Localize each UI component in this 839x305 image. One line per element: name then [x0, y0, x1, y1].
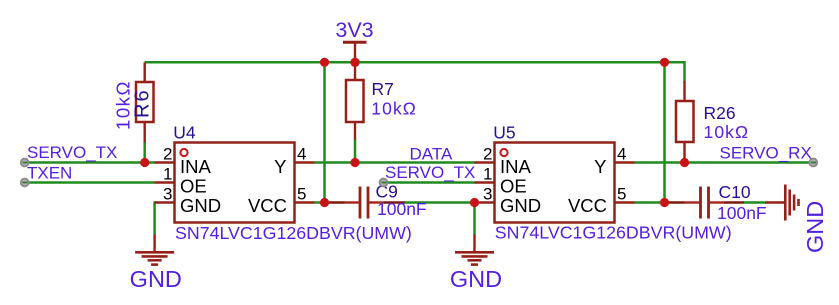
ground GND under U5	[450, 235, 502, 293]
wire SERVO_TX port to U5 pin1	[386, 181, 475, 184]
svg-text:10kΩ: 10kΩ	[113, 80, 134, 130]
pin 4 Y of U4	[295, 161, 315, 163]
svg-text:2: 2	[163, 145, 172, 164]
pin 2 of C9	[369, 201, 385, 203]
resistor R7	[346, 62, 417, 139]
pin 3 GND of U5	[475, 201, 495, 203]
port SERVO_RX	[809, 159, 817, 167]
svg-text:OE: OE	[500, 176, 527, 197]
wire U5.Y to SERVO_RX	[635, 161, 811, 164]
wire C9 right pin to GND net	[384, 201, 405, 203]
pin 1 of C10	[684, 201, 700, 203]
node junction riser U5 top	[660, 58, 669, 67]
node junction U4 VCC	[320, 198, 329, 207]
C10 right plate	[707, 187, 710, 219]
wire U4 pin5 to riser	[315, 201, 326, 204]
wire C9 right to U5 pin3	[404, 201, 475, 204]
ground GND under U4	[130, 235, 182, 293]
svg-text:GND: GND	[130, 266, 182, 292]
svg-text:SERVO_TX: SERVO_TX	[27, 143, 117, 162]
svg-text:10kΩ: 10kΩ	[371, 99, 417, 119]
op-amp U4 (buffer SN74LVC1G126)	[155, 123, 412, 244]
pin-1 indicator circle U4	[180, 149, 187, 156]
port SERVO_TX middle	[380, 179, 388, 187]
C10 left plate	[699, 187, 702, 219]
pin 2 INA of U4	[155, 161, 175, 163]
op-amp U5 (buffer SN74LVC1G126)	[475, 123, 732, 243]
svg-text:C10: C10	[719, 182, 751, 202]
resistor R6	[113, 62, 154, 142]
svg-text:SERVO_RX: SERVO_RX	[720, 144, 812, 163]
wire R26 top segment	[683, 61, 686, 82]
svg-text:3: 3	[483, 185, 492, 204]
wire top 3V3 rail	[145, 61, 685, 64]
wire DATA U4.Y to U5.INA	[315, 161, 475, 164]
svg-text:U4: U4	[173, 123, 196, 143]
svg-text:INA: INA	[500, 156, 532, 177]
svg-text:SN74LVC1G126DBVR(UMW): SN74LVC1G126DBVR(UMW)	[175, 223, 412, 243]
node junction U5 GND/C9	[470, 198, 479, 207]
pin 1 of C9	[344, 201, 359, 203]
wire R6 bottom segment	[143, 142, 146, 163]
svg-text:GND: GND	[500, 195, 541, 216]
svg-text:DATA: DATA	[410, 145, 453, 164]
wire C10 to GND flag	[744, 201, 766, 204]
svg-text:VCC: VCC	[248, 195, 287, 216]
svg-text:R7: R7	[372, 79, 394, 99]
svg-text:U5: U5	[493, 123, 515, 143]
wire U5 pin5 to riser and C10	[635, 201, 665, 204]
svg-text:R26: R26	[704, 103, 736, 123]
svg-text:Y: Y	[274, 156, 286, 177]
C9 right plate	[367, 187, 370, 219]
svg-text:SN74LVC1G126DBVR(UMW): SN74LVC1G126DBVR(UMW)	[495, 223, 732, 243]
svg-text:100nF: 100nF	[717, 203, 767, 223]
capacitor C10	[666, 182, 767, 223]
C9 left plate	[359, 187, 362, 219]
wire U5 GND drop	[473, 203, 476, 236]
node junction 3V3/R7 top	[350, 58, 359, 67]
svg-text:GND: GND	[450, 266, 502, 292]
pin 4 Y of U5	[615, 161, 635, 163]
svg-text:10kΩ: 10kΩ	[704, 122, 750, 142]
node junction U5 VCC/C10	[660, 198, 669, 207]
svg-text:1: 1	[483, 165, 492, 184]
port TXEN	[21, 179, 29, 187]
svg-text:GND: GND	[802, 201, 828, 253]
svg-text:3: 3	[163, 185, 172, 204]
wire TXEN to U4 pin1	[28, 181, 155, 184]
pin-1 indicator circle U5	[500, 149, 507, 156]
svg-text:R6: R6	[132, 88, 154, 118]
svg-text:OE: OE	[180, 176, 207, 197]
pin 5 VCC of U4	[295, 201, 315, 203]
svg-text:4: 4	[297, 145, 306, 164]
svg-text:5: 5	[297, 185, 306, 204]
node junction R6/SERVO_TX	[140, 158, 149, 167]
wire VCC riser U5	[663, 62, 666, 202]
pin 2 INA of U5	[475, 161, 495, 163]
svg-text:4: 4	[617, 145, 626, 164]
wire VCC riser U4	[323, 62, 326, 202]
svg-text:1: 1	[163, 165, 172, 184]
power flag 3V3	[335, 18, 373, 62]
wire U4 GND drop	[153, 201, 156, 235]
svg-text:5: 5	[617, 185, 626, 204]
svg-text:INA: INA	[180, 156, 212, 177]
pin 1 OE of U4	[155, 181, 175, 183]
pin 1 OE of U5	[475, 181, 495, 183]
wire C10 right pin toward GND flag	[724, 201, 744, 203]
ground GND right of C10 (rotated)	[765, 185, 828, 254]
svg-text:VCC: VCC	[568, 195, 607, 216]
pin 2 of C10	[710, 201, 725, 203]
svg-text:SERVO_TX: SERVO_TX	[385, 163, 475, 182]
node junction R26/SERVO_RX	[680, 158, 689, 167]
pin 3 GND of U4	[155, 201, 175, 203]
svg-text:GND: GND	[180, 195, 221, 216]
pin 5 VCC of U5	[615, 201, 635, 203]
svg-text:3V3: 3V3	[335, 18, 373, 42]
resistor R26	[676, 81, 749, 163]
wire SERVO_TX to R6/U4 pin2	[28, 161, 155, 164]
svg-text:TXEN: TXEN	[27, 164, 72, 183]
node junction R7/DATA	[350, 158, 359, 167]
svg-text:Y: Y	[594, 156, 606, 177]
svg-text:2: 2	[483, 145, 492, 164]
wire U5 VCC node to C10 left pin	[666, 201, 685, 203]
wire R7 bottom segment	[354, 139, 357, 163]
wire U4 VCC node to C9 left pin	[327, 201, 345, 203]
svg-text:100nF: 100nF	[377, 199, 427, 219]
node junction riser U4 top	[320, 58, 329, 67]
capacitor C9	[327, 182, 427, 220]
port SERVO_TX left	[21, 159, 29, 167]
